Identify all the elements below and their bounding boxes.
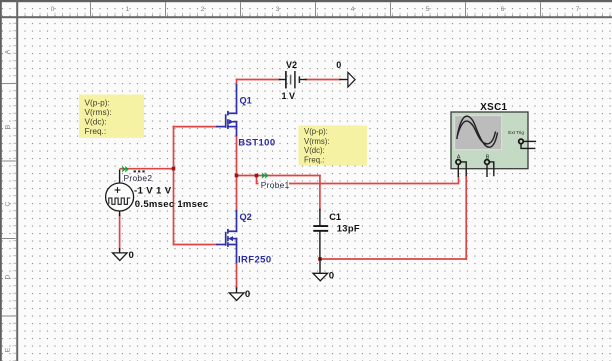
svg-text:Probe2: Probe2 [124, 173, 153, 183]
svg-text:V(p-p):: V(p-p): [304, 127, 328, 136]
svg-text:0: 0 [51, 6, 55, 13]
svg-text:C1: C1 [329, 212, 341, 222]
svg-text:V(rms):: V(rms): [85, 107, 112, 117]
svg-text:D: D [5, 274, 12, 279]
svg-text:1: 1 [126, 6, 130, 13]
svg-text:0: 0 [329, 271, 334, 282]
svg-text:0.5msec 1msec: 0.5msec 1msec [135, 199, 209, 210]
svg-text:V(dc):: V(dc): [85, 116, 107, 126]
svg-text:5: 5 [426, 6, 430, 13]
svg-text:B: B [486, 154, 490, 160]
svg-text:1 V: 1 V [282, 91, 296, 101]
svg-text:13pF: 13pF [337, 222, 360, 233]
svg-text:0: 0 [336, 60, 341, 70]
svg-text:B: B [5, 124, 12, 129]
svg-text:V(rms):: V(rms): [304, 137, 330, 146]
svg-text:0: 0 [245, 289, 250, 300]
svg-text:6: 6 [501, 6, 505, 13]
svg-text:2: 2 [201, 6, 205, 13]
svg-text:V(p-p):: V(p-p): [85, 97, 110, 107]
svg-text:Probe1: Probe1 [261, 180, 290, 190]
svg-text:IRF250: IRF250 [238, 254, 272, 265]
svg-text:Ext Trig: Ext Trig [508, 130, 524, 135]
svg-text:BST100: BST100 [238, 137, 275, 148]
svg-text:E: E [5, 347, 12, 352]
svg-text:V2: V2 [286, 60, 297, 70]
svg-text:3: 3 [276, 6, 280, 13]
svg-text:C: C [5, 201, 12, 206]
svg-text:Q2: Q2 [240, 212, 252, 222]
svg-text:A: A [5, 49, 12, 54]
svg-text:Q1: Q1 [240, 95, 252, 105]
svg-text:4: 4 [351, 6, 355, 13]
svg-text:0: 0 [129, 250, 134, 261]
svg-text:Freq.:: Freq.: [85, 126, 107, 136]
svg-text:Freq.:: Freq.: [304, 156, 324, 165]
svg-text:-1 V 1 V: -1 V 1 V [134, 186, 172, 197]
svg-text:V(dc):: V(dc): [304, 146, 325, 155]
svg-text:7: 7 [576, 6, 580, 13]
svg-text:XSC1: XSC1 [480, 102, 507, 113]
svg-text:A: A [457, 154, 461, 160]
